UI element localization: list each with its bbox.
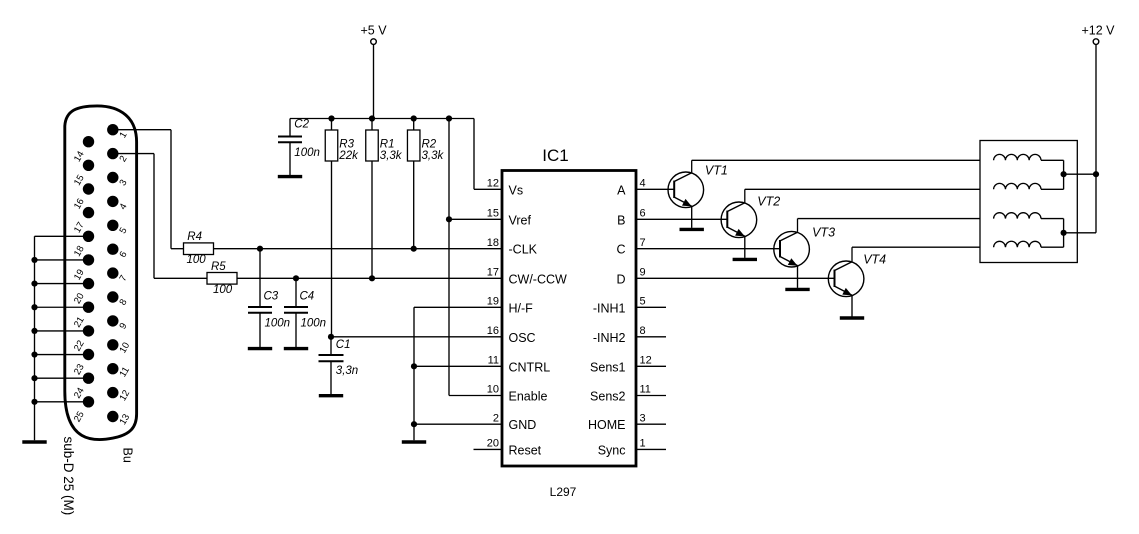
svg-text:9: 9 (640, 267, 646, 279)
svg-text:sub-D 25 (M): sub-D 25 (M) (61, 437, 76, 516)
svg-text:11: 11 (488, 355, 499, 367)
svg-text:C1: C1 (336, 339, 351, 351)
svg-text:HOME: HOME (588, 418, 626, 432)
svg-text:C: C (616, 243, 625, 257)
svg-text:20: 20 (487, 438, 499, 450)
svg-text:16: 16 (487, 325, 499, 337)
svg-text:5: 5 (640, 296, 646, 308)
svg-text:3,3n: 3,3n (336, 365, 358, 377)
svg-text:22k: 22k (338, 150, 359, 162)
svg-text:7: 7 (640, 237, 646, 249)
svg-text:R1: R1 (380, 139, 395, 151)
svg-text:100n: 100n (265, 318, 291, 330)
svg-text:12: 12 (487, 178, 499, 190)
svg-text:IC1: IC1 (542, 146, 568, 165)
svg-text:Vref: Vref (509, 213, 532, 227)
svg-text:8: 8 (640, 325, 646, 337)
svg-text:VT4: VT4 (863, 252, 886, 266)
svg-text:R3: R3 (339, 139, 354, 151)
svg-text:L297: L297 (550, 485, 577, 499)
svg-text:Bu: Bu (120, 448, 134, 463)
svg-text:Sens1: Sens1 (590, 360, 625, 374)
svg-text:12: 12 (640, 355, 652, 367)
svg-text:B: B (617, 213, 625, 227)
svg-text:+12 V: +12 V (1081, 24, 1115, 38)
svg-text:VT1: VT1 (705, 163, 728, 177)
svg-text:17: 17 (487, 267, 499, 279)
svg-text:GND: GND (509, 418, 537, 432)
svg-text:18: 18 (487, 237, 499, 249)
svg-text:R2: R2 (422, 139, 437, 151)
svg-text:15: 15 (487, 208, 499, 220)
svg-text:6: 6 (640, 208, 646, 220)
svg-text:H/-F: H/-F (509, 301, 534, 315)
svg-text:-CLK: -CLK (509, 243, 538, 257)
svg-text:Enable: Enable (509, 390, 548, 404)
svg-text:100n: 100n (301, 318, 327, 330)
svg-text:D: D (616, 272, 625, 286)
svg-text:100n: 100n (294, 147, 320, 159)
svg-text:2: 2 (493, 412, 499, 424)
svg-text:CNTRL: CNTRL (509, 360, 551, 374)
svg-text:A: A (617, 183, 626, 197)
svg-text:4: 4 (640, 178, 646, 190)
svg-text:+5 V: +5 V (360, 24, 387, 38)
svg-text:R4: R4 (187, 231, 202, 243)
svg-text:C2: C2 (294, 119, 309, 131)
svg-text:100: 100 (187, 254, 207, 266)
svg-text:-INH2: -INH2 (593, 331, 626, 345)
svg-text:1: 1 (640, 438, 646, 450)
svg-text:C4: C4 (300, 291, 315, 303)
svg-text:C3: C3 (264, 291, 279, 303)
svg-text:Vs: Vs (509, 183, 524, 197)
svg-text:OSC: OSC (509, 331, 536, 345)
svg-text:11: 11 (640, 384, 651, 396)
svg-text:Sens2: Sens2 (590, 390, 625, 404)
svg-text:3,3k: 3,3k (380, 150, 403, 162)
svg-text:-INH1: -INH1 (593, 301, 626, 315)
svg-text:100: 100 (213, 284, 233, 296)
svg-text:3: 3 (640, 412, 646, 424)
svg-text:CW/-CCW: CW/-CCW (509, 272, 568, 286)
svg-text:3,3k: 3,3k (422, 150, 445, 162)
svg-text:VT3: VT3 (812, 226, 835, 240)
svg-text:R5: R5 (211, 261, 226, 273)
svg-text:10: 10 (487, 384, 499, 396)
svg-text:Reset: Reset (509, 443, 542, 457)
svg-text:VT2: VT2 (757, 195, 780, 209)
svg-text:19: 19 (487, 296, 499, 308)
svg-text:Sync: Sync (598, 443, 626, 457)
